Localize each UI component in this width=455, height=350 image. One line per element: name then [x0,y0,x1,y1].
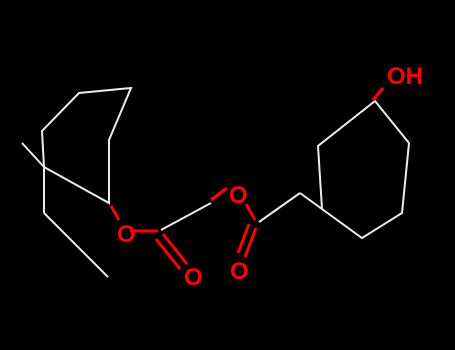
svg-text:OH: OH [387,63,423,90]
svg-text:O: O [229,182,248,209]
svg-text:O: O [230,258,249,285]
svg-text:O: O [117,221,136,248]
svg-text:O: O [184,264,203,291]
